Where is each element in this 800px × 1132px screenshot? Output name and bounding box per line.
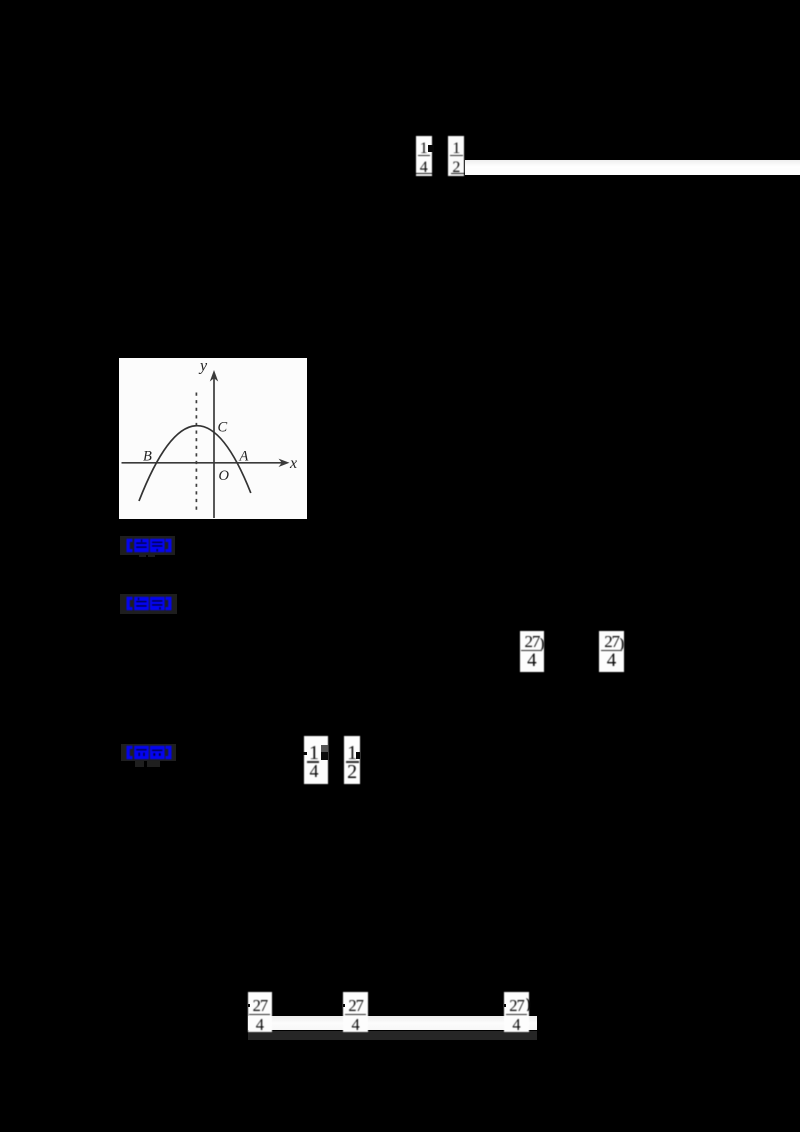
paren after second 27/4	[620, 635, 627, 650]
minus mark left of 1/4	[303, 752, 307, 755]
fraction 27/4 (bottom first)	[248, 992, 272, 1033]
fraction 1/4 (top formula)	[416, 136, 433, 176]
axis of symmetry (dashed)	[195, 392, 197, 510]
paren after first 27/4	[540, 635, 547, 650]
blue label 3 halo	[121, 744, 176, 761]
blue label 1	[126, 538, 172, 553]
fraction 27/4 (bottom third)	[504, 992, 529, 1033]
paren after bottom third 27/4	[526, 996, 535, 1011]
fraction 1/2 (top formula)	[448, 136, 464, 176]
svg-text:y: y	[198, 358, 208, 375]
y-axis	[213, 376, 215, 518]
blue label 2 halo	[120, 594, 177, 615]
black x mark beside 1/4	[428, 145, 434, 153]
x-axis	[121, 461, 284, 463]
bottom answer strip (dark gray underline band)	[248, 1031, 537, 1040]
svg-text:B: B	[143, 448, 152, 464]
bottom answer strip (white)	[248, 1016, 537, 1030]
svg-text:O: O	[218, 468, 229, 484]
parabola curve	[139, 425, 251, 500]
fraction 27/4 (bottom second)	[343, 992, 368, 1033]
x^2 dark blob on 1/4 box	[321, 745, 328, 753]
white answer-blank strip (top)	[465, 160, 800, 175]
dark mark right of 1/2	[356, 752, 361, 760]
fraction 27/4 (second)	[599, 631, 623, 671]
blue label 2	[126, 596, 172, 611]
fraction -1/4 x^2 (mid formula)	[304, 736, 328, 784]
svg-text:x: x	[289, 455, 297, 472]
fraction 1/2 (mid formula)	[344, 736, 360, 784]
parabola graph image	[119, 358, 308, 520]
blue label 3	[126, 745, 172, 760]
fraction 27/4 (first)	[520, 631, 544, 671]
svg-text:C: C	[217, 419, 227, 435]
blue label 1 halo	[120, 536, 175, 555]
svg-text:A: A	[238, 448, 248, 464]
